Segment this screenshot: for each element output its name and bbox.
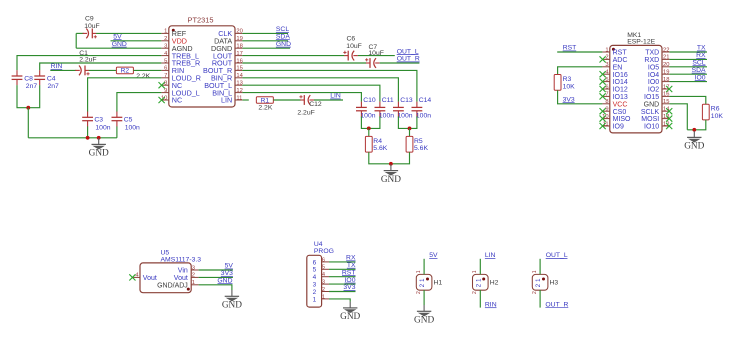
svg-text:19: 19 [663,70,669,76]
svg-text:C11: C11 [382,97,394,104]
junction ESP ground tap [692,128,696,132]
svg-text:4: 4 [322,272,325,278]
PT2315 pin 2 stub, number and name VDD [161,36,187,45]
wire PT2315 pin14 BIN_R to C13 [242,78,398,102]
svg-text:7: 7 [605,92,608,98]
wire C6 to OUT_L [358,55,395,57]
svg-text:3: 3 [322,280,325,286]
module MK1 ESP-12E body [610,45,662,132]
ESP-12E pin 7 stub, number and name IO13 [602,92,627,101]
svg-text:1: 1 [322,294,325,300]
svg-text:1: 1 [192,280,195,286]
ESP-12E pin 19 stub, number and name IO4 [648,70,670,79]
wire PT2315 pin15 BOUT_R to C14 [242,70,417,101]
capacitor C4 2n7 [34,70,45,85]
wire RST to ESP pin1 [557,51,602,53]
svg-text:15: 15 [236,66,242,72]
svg-text:VCC: VCC [613,101,628,108]
svg-text:3: 3 [164,44,167,50]
no-connect X on ESP-12E pin 12 [666,123,672,129]
svg-text:GND: GND [340,312,360,322]
PT2315 pin 19 stub, number and name DATA [214,36,243,45]
svg-text:7: 7 [164,73,167,79]
junction C13-C14 rail to R5 [408,126,412,130]
svg-text:2: 2 [164,36,167,42]
PT2315 pin 4 stub, number and name TREB_L [161,51,199,60]
svg-text:2: 2 [192,273,195,279]
wire R4 R5 bottoms to ground [369,152,410,164]
connector H2 2-pin header [472,270,499,294]
capacitor C14 100n [412,102,423,117]
svg-text:R3: R3 [563,76,572,83]
svg-text:21: 21 [663,55,669,61]
svg-text:C3: C3 [94,117,103,124]
svg-text:5.6K: 5.6K [414,145,428,152]
U5 pin 2 stub, number and name Vout [174,273,199,282]
PT2315 pin 6 stub, number and name RIN [161,66,184,75]
svg-text:2: 2 [532,291,538,294]
no-connect X on ESP-12E pin 4 [600,71,606,77]
svg-text:1: 1 [532,270,538,273]
svg-text:3: 3 [313,282,317,289]
svg-text:3: 3 [605,62,608,68]
ESP-12E pin 9 stub, number and name CS0 [602,107,626,116]
no-connect X on PT2315 pin 10 [159,97,165,103]
svg-text:GND: GND [381,175,401,185]
wire C5 bottom to ground rail [116,126,118,137]
svg-text:1: 1 [313,296,317,303]
U5 pin 4 stub, number and name Vout [133,273,157,282]
ESP-12E pin 18 stub, number and name IO0 [648,77,670,86]
U5 pin 3 stub, number and name Vin [178,265,199,274]
svg-text:IO0: IO0 [648,79,659,86]
ESP-12E pin 10 stub, number and name MISO [602,114,631,123]
junction ground symbol tap [97,136,101,140]
ESP-12E pin 17 stub, number and name IO2 [648,84,670,93]
svg-text:C14: C14 [419,97,432,104]
wire U5 pin2 Vout to 3V3 [199,276,233,278]
svg-text:C13: C13 [400,97,413,104]
capacitor C7 10uF polarized [365,58,380,68]
PT2315 pin 15 stub, number and name BOUT_R [203,66,243,75]
U5 pin 1 stub, number and name GND/ADJ [157,280,199,289]
wire U5 pin1 GND [199,285,232,290]
ESP-12E pin 8 stub, number and name VCC [602,99,627,108]
svg-text:10K: 10K [711,113,724,120]
svg-text:IO15: IO15 [644,94,659,101]
svg-text:R2: R2 [121,68,130,75]
wire PT2315 pin13 BOUT_L to C11 [242,85,380,101]
ground symbol below U4 [343,302,357,313]
svg-text:22: 22 [663,47,669,53]
svg-text:R4: R4 [373,138,382,145]
svg-text:100n: 100n [125,124,140,131]
wire PT2315 pin4 TREB_L to C8 [17,56,161,71]
no-connect X on U5 pin 4 [129,274,135,280]
svg-text:GND: GND [222,301,242,311]
resistor R2 2.2K [116,67,133,74]
wire PT2315 pin5 TREB_R to C4 [40,63,162,70]
svg-text:PROG: PROG [314,248,334,255]
svg-text:C6: C6 [347,35,356,42]
wire U5 pin3 Vin to 5V [199,269,233,271]
PT2315 pin 9 stub, number and name LOUD_L [161,88,199,97]
wire C9 negative plate down to pin3 AGND net [75,33,77,48]
ESP-12E pin 12 stub, number and name IO10 [644,121,669,130]
capacitor C8 2n7 [12,70,23,85]
svg-text:IO2: IO2 [648,87,659,94]
no-connect X on ESP-12E pin 6 [600,86,606,92]
svg-text:CS0: CS0 [613,109,627,116]
wire H1 pin2 down to ground [423,290,425,305]
wire PT2315 pin19 DATA to SDA [242,40,288,42]
svg-text:AMS1117-3.3: AMS1117-3.3 [161,256,202,263]
no-connect X on ESP-12E pin 14 [666,108,672,114]
svg-text:10uF: 10uF [368,50,384,57]
PT2315 pin 5 stub, number and name TREB_R [161,58,200,67]
wire R1 to C12 [273,99,300,101]
svg-text:8: 8 [164,81,167,87]
PT2315 pin 14 stub, number and name BIN_R [211,73,244,82]
svg-text:IO9: IO9 [613,124,624,131]
U4 pin 3 stub, inner digit and number [313,280,329,289]
svg-text:2: 2 [416,291,422,294]
svg-text:C9: C9 [85,16,94,23]
svg-text:2n7: 2n7 [26,83,38,90]
ground symbol below H1 [417,305,431,316]
svg-text:C8: C8 [24,75,33,82]
PT2315 pin 1 marker dot [172,29,175,32]
wire C7 to OUT_R [380,62,420,64]
PT2315 pin 11 stub, number and name LIN [221,95,242,104]
svg-text:13: 13 [236,81,242,87]
wire H3 pin2 down to OUT_R [539,290,541,308]
ESP-12E pin 14 stub, number and name SCLK [641,107,670,116]
U4 pin 4 stub, inner digit and number [313,272,329,281]
svg-text:EN: EN [613,64,623,71]
ground symbol below R4/R5 [384,164,398,175]
svg-text:2.2uF: 2.2uF [297,110,314,117]
ground rail under C3 C5 [28,137,117,139]
no-connect X on ESP-12E pin 7 [600,93,606,99]
svg-text:2.2K: 2.2K [136,73,150,80]
wire H2 pin2 down to RIN [479,290,481,308]
PT2315 pin 10 stub, number and name NC [161,95,182,104]
U4 pin 2 stub, inner digit and number [313,287,329,296]
capacitor C11 100n [375,102,386,117]
ground symbol below U5 [225,290,239,301]
svg-text:19: 19 [236,36,242,42]
wire U4 pin1 to ground [329,299,350,302]
svg-text:H3: H3 [550,280,559,287]
ground symbol below C3/C5 rail [92,138,106,149]
svg-text:12: 12 [236,88,242,94]
svg-text:GND: GND [644,101,660,108]
wire H1 pin1 up to 5V [423,259,425,275]
no-connect X on ESP-12E pin 17 [666,86,672,92]
svg-text:9: 9 [164,88,167,94]
svg-text:17: 17 [236,51,242,57]
svg-text:PT2315: PT2315 [188,16,214,25]
PT2315 pin 20 stub, number and name CLK [218,29,243,38]
wire ESP pin15 GND down to gnd rail [669,104,687,130]
svg-text:IO13: IO13 [613,94,628,101]
svg-text:100n: 100n [95,124,110,131]
svg-text:2.2uF: 2.2uF [79,57,96,64]
wire 5V stub to PT2315 pin2 VDD [111,40,162,42]
ESP-12E pin 2 stub, number and name ADC [602,55,627,64]
PT2315 pin 16 stub, number and name ROUT [212,58,243,67]
wire C12 to LIN label [314,99,343,101]
ESP-12E pin 15 stub, number and name GND [644,99,670,108]
PT2315 pin 17 stub, number and name LOUT [213,51,243,60]
ESP-12E pin 16 stub, number and name IO15 [644,92,669,101]
wire C8 bottom to junction rail [17,85,40,108]
capacitor C5 100n [112,112,123,127]
U4 pin 5 stub, inner digit and number [313,265,329,274]
svg-text:IO12: IO12 [613,87,628,94]
capacitor C10 100n [356,102,367,117]
capacitor C3 100n [82,112,93,127]
svg-text:C10: C10 [363,97,376,104]
svg-text:18: 18 [663,77,669,83]
svg-text:5: 5 [605,77,608,83]
ESP-12E pin 6 stub, number and name IO12 [602,84,627,93]
svg-text:1: 1 [416,270,422,273]
wire U4 pin3 to IO0 [329,283,356,285]
svg-text:RST: RST [613,50,628,57]
svg-text:10uF: 10uF [346,43,362,50]
wire PT2315 pin7 LOUD_R to C3 [88,78,162,112]
PT2315 pin 13 stub, number and name BOUT_L [204,81,243,90]
svg-text:5: 5 [313,267,317,274]
capacitor C12 2.2uF polarized [299,95,314,105]
svg-text:IO16: IO16 [613,72,628,79]
svg-text:ESP-12E: ESP-12E [627,38,655,45]
wire R5 top lead [409,128,411,136]
wire C9 left lead connection [76,32,84,34]
svg-text:SCLK: SCLK [641,109,660,116]
svg-text:6: 6 [313,259,317,266]
svg-text:10K: 10K [563,83,576,90]
svg-text:6: 6 [322,257,325,263]
wire PT2315 pin12 BIN_L to C10 [242,93,361,102]
wire ESP pin3 EN to R3 top [558,67,603,75]
wire U4 pin2 to 3V3 [329,291,356,293]
wire R4 top lead [368,128,370,136]
wire C8/C4 rail down to ground rail [27,108,29,138]
connector U4 PROG body [307,255,322,307]
PT2315 pin 3 stub, number and name AGND [161,44,192,53]
svg-text:GND: GND [89,149,109,159]
svg-text:1: 1 [605,47,608,53]
svg-text:GND: GND [684,142,704,152]
wire PT2315 pin9 LOUD_L to C5 [117,93,161,112]
connector H3 2-pin header [532,270,559,294]
U4 pin 1 stub, inner digit and number [313,294,329,303]
svg-text:2: 2 [605,55,608,61]
svg-text:2: 2 [472,291,478,294]
svg-text:2.2K: 2.2K [258,104,272,111]
wire ESP pin22 TXD to TX [669,51,707,53]
svg-text:16: 16 [663,92,669,98]
wire pin3 AGND [76,47,161,49]
svg-text:8: 8 [605,99,608,105]
svg-text:IO5: IO5 [648,64,659,71]
svg-text:4: 4 [313,274,317,281]
svg-text:C5: C5 [124,117,133,124]
wire ESP pin16 IO15 to R6 top [669,96,705,104]
U4 pin 6 stub, inner digit and number [313,257,329,266]
PT2315 pin 8 stub, number and name NC [161,81,182,90]
wire ESP pin18 IO0 to IO0 [669,81,707,83]
wire H2 pin1 up to LIN [479,259,481,275]
no-connect X on ESP-12E pin 11 [600,123,606,129]
svg-text:TXD: TXD [645,50,659,57]
svg-text:IO14: IO14 [613,79,628,86]
svg-text:2: 2 [322,287,325,293]
svg-text:11: 11 [236,95,242,101]
IC U2 PT2315 audio processor body [169,26,235,107]
junction C8-C4 ground rail [26,106,30,110]
svg-text:9: 9 [605,107,608,113]
wire PT2315 pin17 LOUT to C6 [242,55,344,57]
no-connect X on ESP-12E pin 10 [600,116,606,122]
wire R6 bottom to gnd rail [687,120,706,130]
svg-text:LIN: LIN [221,96,232,105]
svg-text:5: 5 [164,58,167,64]
capacitor C9 10uF polarized [83,29,97,39]
wire H3 pin1 up to OUT_L [539,259,541,275]
svg-text:100n: 100n [397,113,412,120]
ESP-12E pin 5 stub, number and name IO14 [602,77,627,86]
svg-text:10uF: 10uF [84,23,100,30]
svg-text:H1: H1 [434,280,443,287]
ESP-12E pin 1 marker dot [612,48,615,51]
wire R2 to PT2315 pin6 RIN [133,69,161,71]
svg-text:R5: R5 [414,138,423,145]
svg-text:100n: 100n [379,113,394,120]
svg-text:C4: C4 [47,75,56,82]
svg-text:6: 6 [605,84,608,90]
U5 pin 1 marker dot [187,288,190,291]
PT2315 pin 7 stub, number and name LOUD_R [161,73,201,82]
resistor R1 2.2K [256,97,273,104]
svg-text:GND/ADJ: GND/ADJ [157,283,188,290]
svg-text:18: 18 [236,44,242,50]
resistor R3 10K [554,75,561,91]
svg-text:GND: GND [414,316,434,326]
ESP-12E pin 4 stub, number and name IO16 [602,70,627,79]
svg-text:MOSI: MOSI [641,116,659,123]
capacitor C1 2.2uF polarized [75,66,89,76]
svg-text:R1: R1 [261,97,270,104]
svg-text:1: 1 [164,29,167,35]
ESP-12E pin 22 stub, number and name TXD [645,47,669,56]
ESP-12E pin 1 stub, number and name RST [602,47,627,56]
svg-text:15: 15 [663,99,669,105]
ESP-12E pin 21 stub, number and name RXD [644,55,669,64]
svg-text:R6: R6 [711,106,720,113]
svg-text:6: 6 [164,66,167,72]
no-connect X on ESP-12E pin 13 [666,116,672,122]
wire C1 to R2 [89,69,117,71]
svg-text:H2: H2 [490,280,499,287]
wire C13 bottom to R5 rail [398,116,417,128]
svg-text:Vout: Vout [174,275,188,282]
svg-text:MISO: MISO [613,116,631,123]
wire C10 bottom to R4 rail [361,116,380,128]
capacitor C13 100n [393,102,404,117]
svg-text:20: 20 [236,29,242,35]
wire PT2315 pin18 DGND to GND [242,47,290,49]
ESP-12E pin 11 stub, number and name IO9 [602,121,624,130]
wire PT2315 pin20 CLK to SCL [242,32,288,34]
PT2315 pin 1 stub, number and name REF [161,29,186,38]
wire ESP pin20 IO5 to SCL [669,66,707,68]
connector H1 2-pin header [416,270,443,294]
svg-text:20: 20 [663,62,669,68]
svg-text:16: 16 [236,58,242,64]
PT2315 pin 12 stub, number and name BIN_L [212,88,243,97]
svg-text:100n: 100n [416,113,431,120]
svg-text:5.6K: 5.6K [373,145,387,152]
wire U4 pin6 to RX [329,261,356,263]
junction ground tap under R4/R5 [389,162,393,166]
svg-text:IO10: IO10 [644,124,659,131]
ground symbol below ESP [687,131,701,142]
svg-text:Vin: Vin [178,268,188,275]
wire U4 pin4 to RST [329,276,356,278]
svg-text:ADC: ADC [613,57,628,64]
svg-text:IO4: IO4 [648,72,659,79]
no-connect X on ESP-12E pin 9 [600,108,606,114]
svg-text:100n: 100n [360,113,375,120]
PT2315 pin 18 stub, number and name DGND [211,44,243,53]
no-connect X on ESP-12E pin 5 [600,79,606,85]
svg-text:2: 2 [313,289,317,296]
svg-text:RXD: RXD [644,57,659,64]
wire RIN label to C1 [50,69,76,71]
regulator U5 AMS1117-3.3 body [140,263,191,293]
wire C3 bottom to ground rail [87,126,89,137]
svg-text:2n7: 2n7 [48,83,60,90]
resistor R4 5.6K [365,136,372,152]
wire U4 pin5 to TX [329,268,356,270]
wire PT2315 pin16 ROUT to C7 [242,62,366,64]
wire ESP pin19 IO4 to SDA [669,73,707,75]
svg-text:1: 1 [472,270,478,273]
no-connect X on ESP-12E pin 2 [600,56,606,62]
ESP-12E pin 13 stub, number and name MOSI [641,114,669,123]
junction C10-C11 rail to R4 [367,126,371,130]
wire PT2315 pin11 LIN to R1 [242,99,248,101]
capacitor C6 10uF polarized [343,51,358,61]
svg-text:5: 5 [322,265,325,271]
wire ESP pin21 RXD to RX [669,58,707,60]
wire C9 positive to PT2315 pin1 REF [96,32,161,34]
resistor R6 10K [702,104,709,120]
svg-text:C12: C12 [309,101,322,108]
svg-text:NC: NC [172,96,182,105]
ESP-12E pin 3 stub, number and name EN [602,62,622,71]
svg-text:3: 3 [192,265,195,271]
wire R3 bottom to 3V3 and ESP pin8 VCC [558,90,603,104]
resistor R5 5.6K [406,136,413,152]
junction C3 at ground rail [86,136,90,140]
ESP-12E pin 20 stub, number and name IO5 [648,62,670,71]
svg-text:Vout: Vout [143,275,157,282]
